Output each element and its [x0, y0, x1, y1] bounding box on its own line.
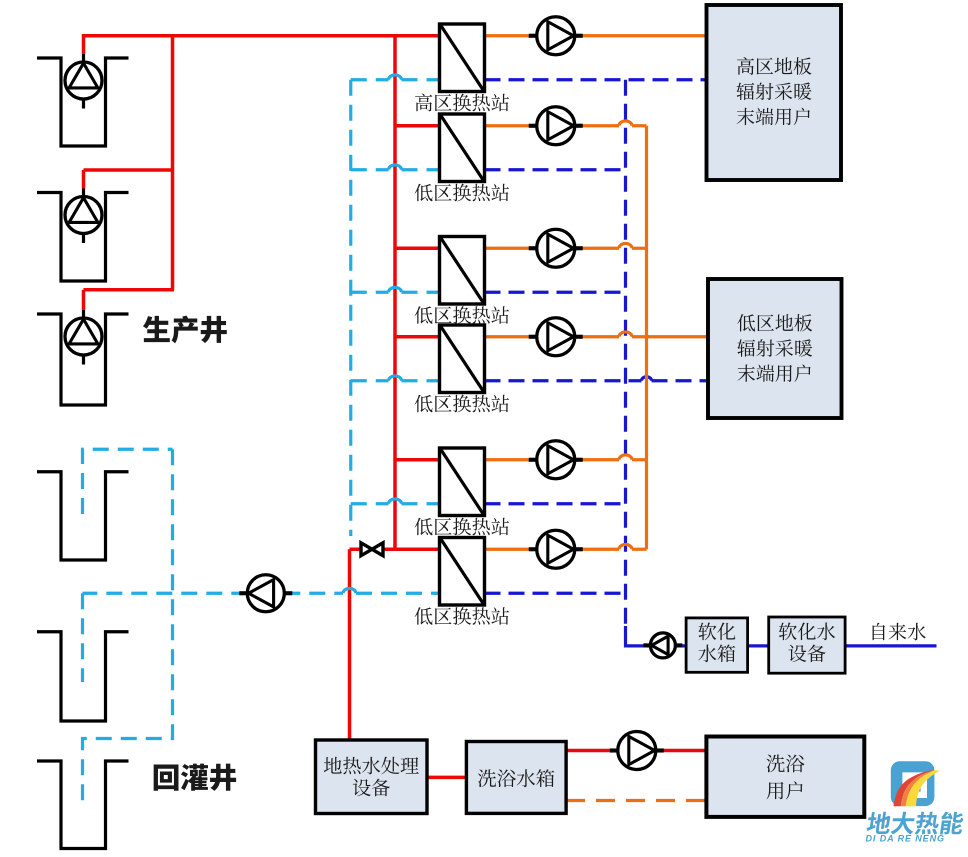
wire red branch to HX5	[395, 458, 441, 462]
heat exchanger U1	[440, 24, 485, 92]
wire cyan HX return trunk	[349, 80, 352, 536]
heat exchanger U6	[440, 538, 485, 606]
softened water pump	[643, 643, 650, 647]
label 低区换热站 4	[415, 395, 509, 413]
wire orange HX2 out	[485, 124, 620, 127]
wire cyan rewell trunk	[83, 449, 173, 804]
wire orange HX6 out	[485, 548, 620, 551]
well pump P3	[82, 310, 85, 319]
svg-text:DI DA RE NENG: DI DA RE NENG	[866, 834, 945, 844]
well pump P1	[82, 54, 85, 63]
wire cyan branch HX2	[351, 168, 389, 171]
wire blue return HX3	[485, 291, 626, 294]
label 洗浴	[766, 755, 804, 773]
heat exchanger U5	[440, 448, 485, 516]
wire red down to treatment unit	[348, 549, 352, 740]
wire red branch to HX4	[395, 335, 441, 339]
label 设备 2	[788, 644, 825, 662]
valve on HX6 supply	[361, 543, 383, 556]
label 辐射采暖	[737, 83, 812, 100]
wire cyan branch HX5	[351, 502, 389, 505]
wire cyan branch HX4	[351, 379, 389, 382]
wire blue tap water line	[845, 644, 936, 647]
bath supply pump	[610, 748, 618, 752]
label 高区地板	[737, 57, 811, 75]
wire orange bath return dashed	[566, 799, 706, 802]
heat exchanger U4	[440, 325, 485, 393]
wire orange collector trunk	[645, 126, 648, 550]
box 低区地板辐射采暖末端用户	[708, 279, 842, 418]
circulation pump HX3	[529, 246, 537, 250]
circulation pump HX1	[529, 34, 537, 38]
wire red branch to HX2	[395, 124, 441, 128]
label 水箱	[698, 644, 735, 662]
label 辐射采暖 2	[737, 339, 812, 356]
label 自来水	[873, 623, 926, 641]
label 地热水处理	[324, 757, 419, 775]
wire orange HX1 to user1	[485, 34, 707, 37]
wire red well-3 branch	[84, 288, 175, 292]
label 低区地板	[737, 314, 812, 332]
wire red supply trunk	[393, 36, 397, 550]
wire red branch to HX6 via valve	[350, 548, 442, 552]
wire blue return HX6	[485, 592, 626, 595]
production well 1	[37, 58, 129, 146]
logo text 地大热能	[866, 812, 965, 835]
wire blue return HX2	[485, 168, 626, 171]
label 高区换热站	[415, 93, 509, 111]
box 地热水处理设备	[316, 740, 428, 814]
wire red main supply header	[84, 34, 442, 38]
label 末端用户 2	[737, 364, 810, 382]
heat exchanger U3	[440, 237, 485, 305]
reinjection well 2	[37, 632, 129, 721]
label 末端用户	[737, 108, 810, 126]
heat exchanger U2	[440, 114, 485, 182]
box 高区地板辐射采暖末端用户	[707, 5, 842, 180]
reinjection well 1	[37, 472, 129, 560]
wire blue makeup trunk	[624, 80, 627, 628]
label 低区换热站 6	[415, 607, 509, 625]
box 洗浴用户	[706, 737, 864, 817]
wire blue to softening tank	[649, 644, 686, 647]
wire red bath supply	[566, 749, 706, 753]
wire cyan main reinjection line	[284, 592, 343, 595]
circulation pump HX4	[529, 335, 537, 339]
wire red well-2 branch	[84, 168, 175, 172]
wire blue return HX4-user2	[485, 379, 642, 382]
label 软化	[698, 623, 735, 641]
label 洗浴水箱	[478, 769, 555, 787]
label 用户	[767, 781, 803, 799]
wire red well collector	[171, 34, 175, 290]
label 低区换热站 2	[415, 184, 509, 202]
label 设备	[353, 779, 390, 797]
box 洗浴水箱	[466, 742, 566, 814]
wire blue tank-to-unit	[746, 644, 768, 647]
box 软化水箱	[686, 618, 748, 672]
label 回灌井	[154, 764, 236, 791]
wire blue return HX5	[485, 502, 626, 505]
circulation pump HX6	[529, 547, 537, 551]
well pump P2	[82, 189, 85, 198]
wire blue return HX1-user1	[485, 78, 707, 81]
circulation pump HX2	[529, 124, 537, 128]
wire blue trunk elbow	[626, 626, 652, 646]
wire orange HX4 to user2	[485, 335, 620, 338]
label 低区换热站 5	[415, 518, 509, 536]
reinjection pump	[239, 591, 247, 595]
label 软化水	[779, 623, 835, 641]
reinjection well 3	[37, 761, 129, 849]
label 生产井	[143, 316, 227, 344]
wire orange HX3 out	[485, 247, 620, 250]
wire cyan rewell-1 riser	[83, 449, 173, 514]
production well 3	[37, 314, 129, 405]
box 软化水设备	[769, 617, 845, 673]
wire cyan branch HX3	[351, 291, 389, 294]
wire red treatment to bath tank	[427, 776, 467, 780]
wire orange HX5 out	[485, 458, 620, 461]
logo icon	[891, 761, 940, 806]
production well 2	[37, 193, 129, 282]
label 低区换热站 3	[415, 306, 509, 324]
wire cyan branch HX1	[351, 78, 389, 81]
circulation pump HX5	[529, 458, 537, 462]
wire red branch to HX3	[395, 247, 441, 251]
